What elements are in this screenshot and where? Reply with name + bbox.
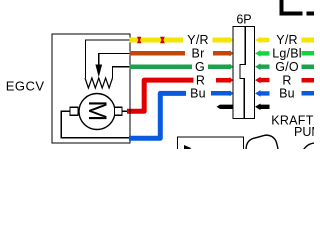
wire R right end (302, 78, 315, 83)
wire Lg/Bl right end (302, 51, 315, 56)
pump detail arc bottom right (302, 143, 320, 171)
terminal left (70, 107, 78, 115)
wire R red thick from motor (127, 80, 194, 111)
wire Bu stub to connector (211, 91, 231, 95)
resistor WW (potentiometer track) (85, 78, 113, 88)
motor M1 circle (79, 94, 115, 130)
svg-text:6P: 6P (236, 13, 251, 27)
wire G green left (130, 64, 193, 69)
svg-text:Br: Br (192, 47, 205, 61)
connector 6P mating line (240, 27, 245, 119)
svg-text:Bu: Bu (279, 87, 295, 101)
wire R stub to connector (216, 78, 231, 82)
wire (motor left terminal to bottom run) (61, 111, 130, 137)
svg-text:EGCV: EGCV (6, 78, 45, 93)
svg-text:Lg/Bl: Lg/Bl (272, 47, 302, 61)
svg-text:PUMPE: PUMPE (294, 125, 314, 139)
svg-text:Y/R: Y/R (276, 33, 297, 47)
tracer mark red on Y/R (160, 37, 165, 43)
connector 6P body (233, 27, 255, 119)
wire G/O right arrow (255, 63, 270, 70)
wire (inside box, to potentiometer right end) (113, 67, 131, 78)
wire Br stub to connector (213, 51, 231, 56)
wire (inside box, to wiper arrow) (99, 53, 130, 66)
wire (motor right terminal stub) (122, 110, 128, 112)
wire Y/R right end (302, 38, 315, 43)
svg-text:G: G (195, 60, 205, 74)
wire B black pin6 left stub (217, 105, 233, 109)
svg-text:G/O: G/O (275, 60, 299, 74)
wire Y/R stub to connector (213, 38, 232, 43)
fuel pump relay box (178, 137, 244, 157)
wire (inside box, to potentiometer left end) (86, 40, 131, 78)
dashed enclosure corner (280, 0, 284, 15)
wire Y/R yellow left (130, 38, 184, 43)
wire (box edge crossing over red) (129, 108, 131, 114)
wire B black pin6 right arrow (255, 104, 270, 111)
wiper arrow (95, 65, 102, 78)
wire Bu right arrow (255, 90, 270, 97)
fuel pump body (244, 133, 280, 164)
svg-text:R: R (196, 73, 205, 87)
wire Lg/Bl right arrow (255, 50, 270, 57)
wire Bu right end (302, 91, 315, 96)
wire Br brown left (130, 51, 186, 56)
svg-text:M: M (83, 100, 111, 121)
wire Y/R right arrow (255, 37, 270, 44)
EGCV component box (52, 34, 130, 143)
svg-text:Bu: Bu (190, 87, 206, 101)
wire R right arrow (255, 77, 270, 84)
wire G/O right end (302, 64, 315, 69)
wire Bu blue thick from motor (129, 93, 186, 138)
arrow inside box (184, 145, 192, 152)
svg-text:Y/R: Y/R (187, 33, 208, 47)
tracer mark red on Y/R (137, 37, 141, 43)
terminal right (115, 107, 123, 115)
svg-text:R: R (282, 73, 291, 87)
wire G stub to connector (208, 64, 231, 69)
